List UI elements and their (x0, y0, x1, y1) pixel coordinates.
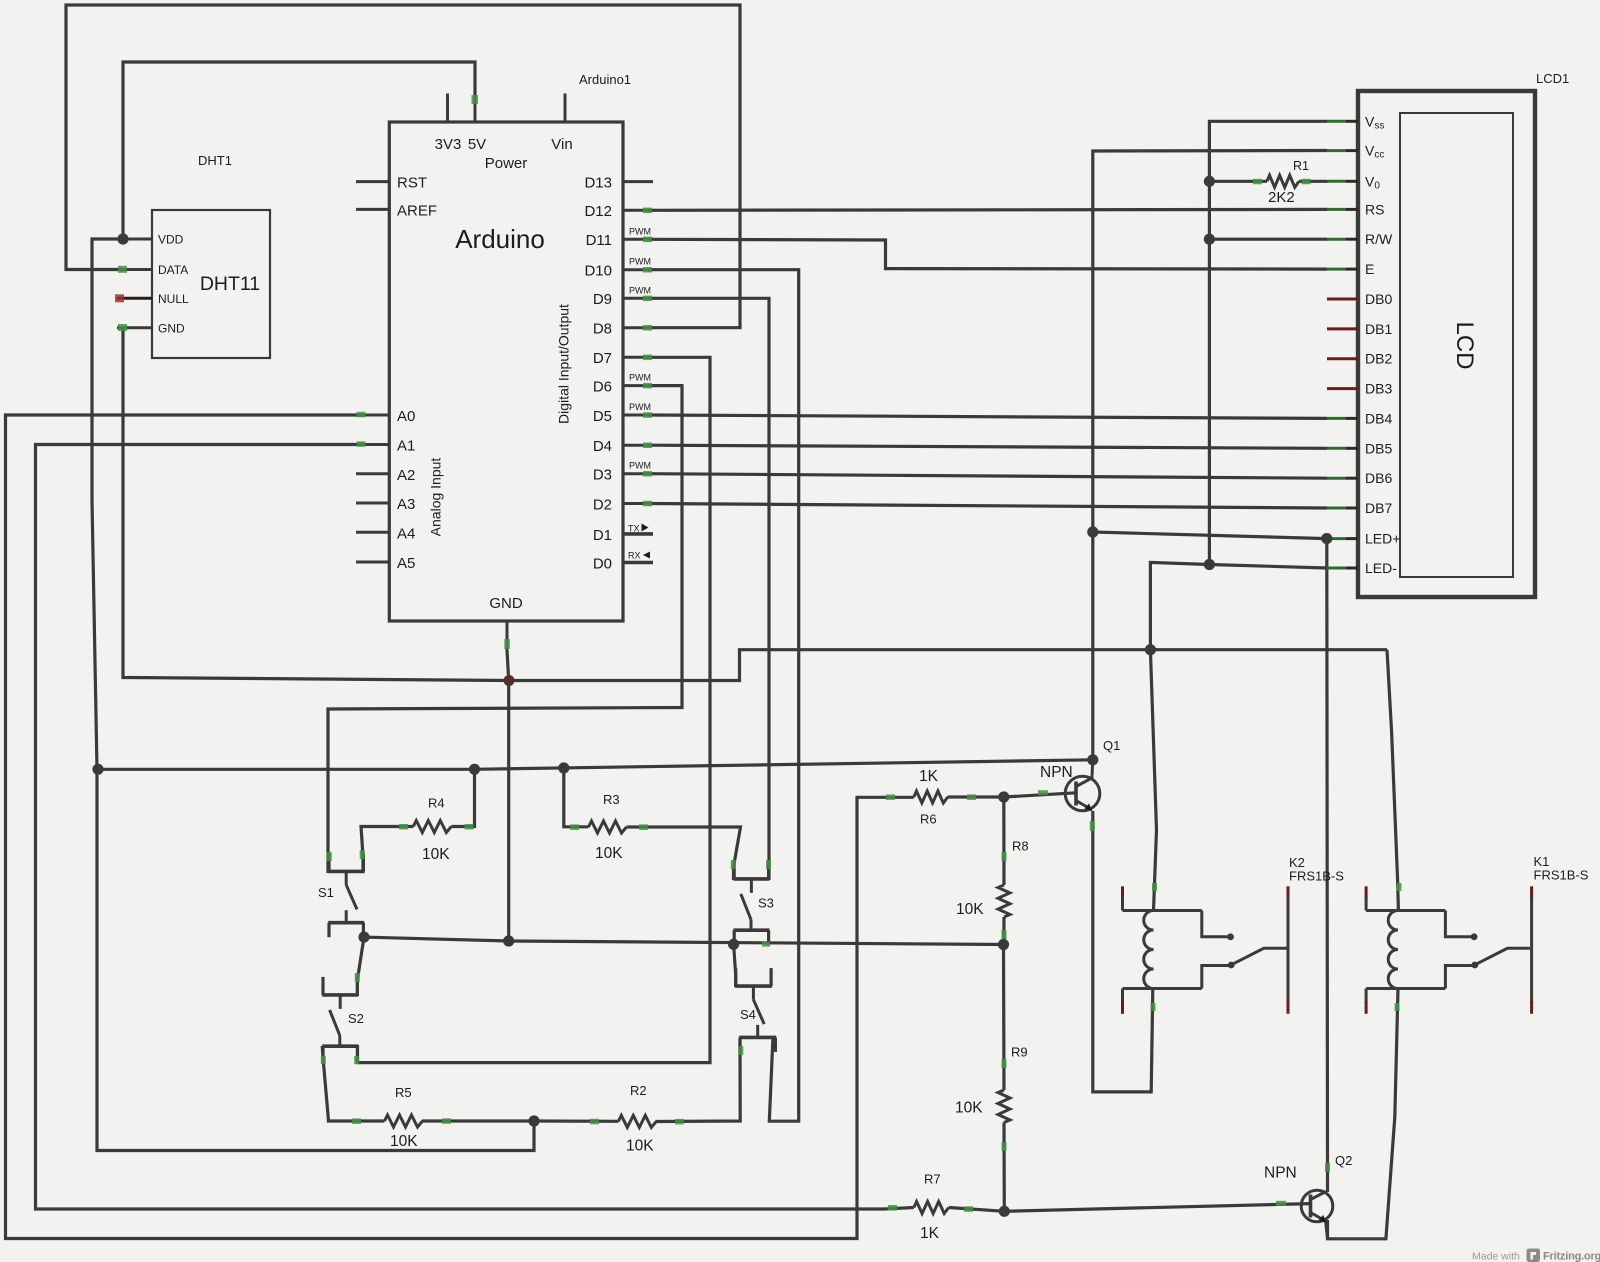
svg-text:10K: 10K (390, 1133, 418, 1150)
wire R2 left lead (534, 1119, 618, 1123)
svg-text:RS: RS (1365, 201, 1384, 217)
svg-text:S2: S2 (348, 1011, 364, 1026)
svg-text:PWM: PWM (629, 402, 651, 412)
resistor R6 1K (914, 791, 948, 803)
resistor R3 10K (589, 821, 627, 833)
svg-text:DB5: DB5 (1365, 440, 1392, 456)
svg-text:AREF: AREF (397, 203, 437, 220)
svg-text:R7: R7 (924, 1172, 941, 1187)
wire GND net: Vss vertical (1209, 121, 1327, 564)
wire GND net: R/W branch (1209, 238, 1327, 241)
LCD module LCD1 body, pins and labels (1358, 91, 1535, 597)
svg-text:DATA: DATA (158, 263, 188, 277)
svg-text:FRS1B-S: FRS1B-S (1289, 869, 1344, 884)
svg-text:TX: TX (628, 524, 640, 534)
resistor R1 2K2 (1267, 175, 1299, 187)
Q2 base mark (1276, 1201, 1286, 1206)
svg-text:3V3: 3V3 (435, 136, 462, 153)
svg-text:D1: D1 (593, 527, 612, 544)
wire A0 net to R6 (6, 415, 914, 1239)
Q2 collector mark (1325, 1163, 1330, 1172)
Q1 emitter mark (1090, 821, 1095, 831)
wire A1 net to R7 (36, 445, 914, 1210)
wire switch common row (364, 937, 1004, 944)
svg-text:A5: A5 (397, 555, 415, 572)
svg-text:2K2: 2K2 (1268, 189, 1295, 206)
svg-text:1K: 1K (919, 768, 939, 785)
svg-text:R8: R8 (1012, 839, 1029, 854)
wire row junction to S4 top-left (734, 944, 736, 987)
svg-text:D10: D10 (584, 263, 612, 280)
svg-text:GND: GND (489, 595, 523, 612)
svg-text:LCD1: LCD1 (1536, 71, 1569, 86)
svg-text:10K: 10K (422, 846, 450, 863)
resistor R2 10K (618, 1115, 656, 1127)
wire R9 bottom link (1002, 1123, 1005, 1212)
svg-text:S4: S4 (740, 1007, 756, 1022)
junction dots (117, 233, 128, 244)
wire R3 top lead drop from 5V rail (564, 769, 589, 827)
junction dot GND (reddish) (504, 675, 515, 686)
wire D3 to LCD DB6 (648, 474, 1327, 479)
wire D2 to LCD DB7 (648, 504, 1327, 509)
svg-text:D6: D6 (593, 379, 612, 396)
svg-text:R/W: R/W (1365, 231, 1393, 247)
wire Q1 base link (1004, 793, 1076, 797)
svg-text:S3: S3 (758, 896, 774, 911)
svg-text:DHT11: DHT11 (200, 273, 260, 295)
svg-text:Analog Input: Analog Input (428, 458, 444, 537)
DHT11 sensor U-DHT1 body and pins (152, 210, 270, 358)
wire D5 to LCD DB4 (648, 415, 1327, 418)
svg-text:10K: 10K (626, 1138, 654, 1155)
svg-text:DB2: DB2 (1365, 351, 1392, 367)
svg-text:Arduino: Arduino (455, 224, 545, 254)
svg-text:5V: 5V (468, 136, 486, 153)
svg-text:Q2: Q2 (1335, 1153, 1352, 1168)
pushbutton S4 (735, 984, 772, 988)
svg-text:Made with: Made with (1472, 1251, 1520, 1262)
svg-text:10K: 10K (956, 901, 984, 918)
resistor R5 10K (385, 1115, 423, 1127)
transistor Q1 NPN (1065, 776, 1100, 811)
svg-text:D11: D11 (586, 232, 612, 249)
svg-text:1K: 1K (920, 1225, 940, 1242)
wire D12 to LCD RS (648, 208, 1327, 212)
svg-text:D8: D8 (593, 321, 612, 338)
svg-text:DB1: DB1 (1365, 321, 1392, 337)
resistor lead connection marks (1253, 179, 1262, 185)
svg-text:VDD: VDD (158, 233, 184, 247)
svg-text:PWM: PWM (629, 257, 651, 267)
pin mark DHT GND (118, 324, 127, 331)
wire D6 net to S1 top-left (328, 386, 682, 873)
svg-text:10K: 10K (955, 1100, 983, 1117)
svg-text:A2: A2 (397, 467, 415, 484)
resistor R4 10K (413, 821, 451, 833)
wire Q1 emitter to K2 coil bottom (1093, 811, 1153, 1092)
wire D7 net to S2 bottom-right (358, 357, 711, 1062)
DHT11 NULL pin stub (unconnected) (117, 297, 152, 300)
wire D10 net to S4 bottom-right (648, 270, 799, 1121)
svg-text:Power: Power (485, 155, 528, 172)
svg-text:PWM: PWM (629, 461, 651, 471)
wire S1 to S2 link (357, 937, 364, 996)
wire LED+ to Q2 collector (1325, 539, 1329, 1192)
svg-text:RST: RST (397, 175, 427, 192)
wire DATA-D8 net (DHT11 DATA to Arduino D8 via top rail) (66, 5, 740, 328)
svg-text:D13: D13 (584, 175, 612, 192)
svg-text:Arduino1: Arduino1 (579, 72, 631, 87)
svg-text:S1: S1 (318, 885, 334, 900)
wire S2 to R5 link (322, 1046, 384, 1121)
wire D9 net to S3 top-right (648, 298, 769, 880)
svg-text:R6: R6 (920, 812, 937, 827)
svg-text:DB7: DB7 (1365, 500, 1392, 516)
svg-text:R5: R5 (395, 1085, 412, 1100)
svg-text:D3: D3 (593, 467, 612, 484)
DHT11 NULL red mark (115, 294, 124, 302)
wire R4 left lead to S1 (361, 827, 413, 874)
svg-text:A1: A1 (397, 437, 415, 454)
svg-text:NULL: NULL (158, 292, 189, 306)
svg-text:D12: D12 (584, 203, 612, 220)
wire D11 to LCD E with jog (648, 239, 1327, 269)
wire R5 right lead to junction (422, 1119, 534, 1122)
svg-text:FRS1B-S: FRS1B-S (1534, 868, 1589, 883)
svg-text:Fritzing.org: Fritzing.org (1543, 1251, 1600, 1262)
svg-text:DB3: DB3 (1365, 381, 1392, 397)
wire R8 bottom link (1002, 917, 1005, 945)
svg-text:A3: A3 (397, 496, 415, 513)
pin mark DHT DATA (118, 266, 127, 273)
svg-text:LED-: LED- (1365, 560, 1397, 576)
wire GND net: Arduino GND pin to junction (507, 650, 509, 941)
wire R6 right lead to Q1 base node (948, 795, 1004, 798)
svg-text:D4: D4 (593, 438, 612, 455)
svg-text:A4: A4 (397, 526, 415, 543)
wire K1 coil top to GND line (1387, 650, 1398, 911)
svg-text:R9: R9 (1011, 1045, 1028, 1060)
relay K1 FRS1B-S (1365, 886, 1368, 899)
svg-text:NPN: NPN (1040, 764, 1073, 781)
svg-text:R3: R3 (603, 792, 620, 807)
svg-text:Digital Input/Output: Digital Input/Output (556, 304, 572, 424)
Arduino pin connection marks (472, 95, 479, 104)
svg-text:PWM: PWM (629, 373, 651, 383)
relay K2 FRS1B-S (1121, 886, 1124, 899)
svg-text:D0: D0 (593, 556, 612, 573)
svg-text:Vin: Vin (551, 136, 572, 153)
svg-text:LED+: LED+ (1365, 531, 1400, 547)
K1 coil marks (1397, 883, 1402, 891)
svg-text:D7: D7 (593, 350, 612, 367)
pushbutton S3 (733, 877, 769, 881)
svg-text:10K: 10K (595, 845, 623, 862)
svg-text:DB4: DB4 (1365, 410, 1392, 426)
wire R3 right lead to S3 (627, 827, 741, 880)
wire R1 leads (V0 to ground rail) (1209, 180, 1327, 183)
wire LED+ branch (1093, 532, 1327, 539)
svg-text:DB0: DB0 (1365, 291, 1392, 307)
wire 5V net: VDD junction up to 5V rail corner (123, 62, 475, 239)
svg-text:R1: R1 (1293, 159, 1309, 173)
wire D4 to LCD DB5 (648, 445, 1327, 448)
Arduino U-Arduino1 body and pin stubs (389, 122, 623, 621)
wire 5V net: DHT VDD to left drop (92, 239, 534, 1151)
svg-text:NPN: NPN (1264, 1165, 1297, 1182)
wire R8 top link (1002, 797, 1005, 885)
resistor R7 1K (914, 1202, 949, 1214)
svg-text:E: E (1365, 261, 1374, 277)
svg-text:D2: D2 (593, 497, 612, 514)
svg-text:PWM: PWM (629, 226, 651, 236)
wire R7 right lead to Q2 base node (949, 1208, 1005, 1212)
wire Vcc net from LCD Vcc down (1093, 151, 1327, 760)
svg-text:DHT1: DHT1 (198, 153, 232, 168)
wire 5V rail (horizontal supply rail) (98, 760, 1093, 770)
svg-text:DB6: DB6 (1365, 470, 1392, 486)
wire Q2 emitter to K1 coil bottom (1328, 989, 1399, 1239)
svg-text:D5: D5 (593, 408, 612, 425)
pushbutton S1 (328, 870, 364, 874)
svg-text:RX: RX (628, 551, 641, 561)
wire Q2 base link (1004, 1204, 1310, 1212)
svg-text:R4: R4 (428, 796, 445, 811)
switch leg connection marks (327, 852, 332, 861)
wire K2 coil top to GND junction (1150, 650, 1156, 911)
K2 coil marks (1152, 883, 1157, 891)
svg-text:R2: R2 (630, 1083, 647, 1098)
svg-text:LCD: LCD (1451, 321, 1478, 369)
Q1 base mark (1038, 790, 1048, 795)
wire GND net: LED- branch (1150, 562, 1326, 649)
resistor R8 10K (vertical) (998, 885, 1010, 917)
transistor Q2 NPN (1301, 1190, 1333, 1222)
svg-text:D9: D9 (593, 291, 612, 308)
svg-text:A0: A0 (397, 408, 415, 425)
wire R9 top link (1002, 945, 1006, 1091)
svg-text:PWM: PWM (629, 285, 651, 295)
pushbutton S2 (322, 993, 358, 997)
wire R4 top lead drop from 5V rail (451, 769, 474, 826)
svg-text:GND: GND (158, 322, 185, 336)
wire GND net: DHT GND down and across (123, 328, 1387, 681)
resistor R9 10K (vertical) (998, 1090, 1010, 1123)
svg-text:Q1: Q1 (1103, 738, 1120, 753)
wire R2 right lead to S4 bottom-left (656, 1039, 741, 1122)
